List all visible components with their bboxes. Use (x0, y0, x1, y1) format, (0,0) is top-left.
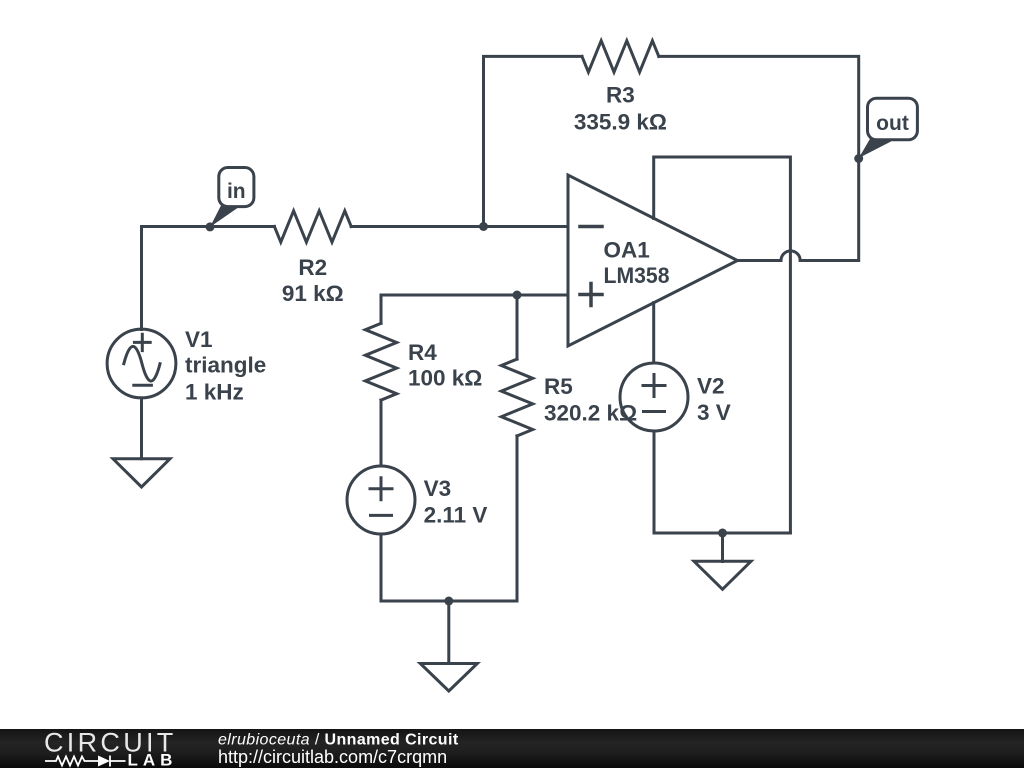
wire V1 top to node in (140, 227, 143, 330)
CircuitLab logo diode triangle (98, 756, 110, 767)
resistor R4 (365, 323, 396, 400)
svg-text:R3: R3 (606, 83, 635, 108)
V1 plus sign (134, 334, 150, 350)
svg-text:out: out (876, 112, 909, 135)
wire feedback vertical and top (484, 56, 583, 226)
svg-text:triangle: triangle (185, 353, 266, 378)
node in flag box (219, 168, 254, 207)
wire bottom middle rail (381, 600, 517, 603)
op-amp V+ pin wire to right rail (654, 157, 791, 533)
svg-text:LM358: LM358 (604, 263, 670, 288)
svg-text:V3: V3 (424, 476, 452, 501)
svg-text:3 V: 3 V (697, 400, 731, 425)
resistor R5 (501, 359, 532, 436)
op-amp plus input marker (580, 284, 602, 306)
junction dot R5 top (513, 291, 522, 300)
wire crossing bump on output wire (781, 251, 800, 261)
svg-text:R2: R2 (298, 255, 327, 280)
node out flag box (868, 98, 918, 140)
junction dot node out (854, 154, 863, 163)
svg-text:R4: R4 (408, 340, 437, 365)
ground stem middle (447, 601, 450, 664)
junction dot feedback (479, 222, 488, 231)
op-amp minus input marker (580, 225, 602, 229)
svg-text:OA1: OA1 (604, 237, 650, 262)
V3 minus sign (371, 514, 392, 517)
V1 minus sign (134, 384, 152, 387)
ground stem right (721, 533, 724, 562)
op-amp V- pin wire to V2 (652, 303, 655, 363)
junction dot bottom middle (444, 597, 453, 606)
wire R4 to V3 (380, 400, 383, 466)
node in flag tail (210, 206, 238, 228)
wire V3 bottom (380, 534, 383, 601)
wire bump to op-amp output (738, 259, 782, 262)
junction dot node in (206, 222, 215, 231)
resistor R2 (274, 211, 351, 242)
V1 sine symbol (124, 346, 160, 381)
wire node in to R2 (142, 225, 275, 228)
V2 minus sign (644, 410, 665, 413)
ground left triangle (113, 459, 170, 487)
resistor R3 (582, 41, 659, 72)
ground right triangle (694, 561, 751, 589)
svg-text:V1: V1 (185, 327, 213, 352)
svg-text:elrubioceuta / Unnamed Circuit: elrubioceuta / Unnamed Circuit (218, 732, 459, 749)
svg-text:320.2 kΩ: 320.2 kΩ (544, 400, 637, 425)
op-amp OA1 triangle body (568, 175, 738, 346)
svg-text:V2: V2 (697, 374, 725, 399)
ground middle triangle (420, 664, 477, 692)
wire R4 corner to op-amp noninverting input (381, 295, 568, 323)
voltage source V2 circle (620, 363, 688, 431)
svg-text:LAB: LAB (128, 751, 178, 768)
junction dot bottom right (718, 529, 727, 538)
V3 plus sign (370, 478, 392, 500)
wire V2 bottom (653, 431, 656, 533)
voltage source V1 circle (107, 329, 176, 398)
wire V1 bottom (140, 398, 143, 459)
svg-text:2.11 V: 2.11 V (424, 502, 488, 527)
wire R3 to out node and down to output (659, 56, 859, 260)
svg-text:91 kΩ: 91 kΩ (282, 281, 344, 306)
svg-text:335.9 kΩ: 335.9 kΩ (574, 110, 667, 135)
wire bottom right rail (654, 532, 790, 535)
svg-text:100 kΩ: 100 kΩ (408, 365, 482, 390)
voltage source V3 circle (347, 466, 415, 534)
wire R5 bottom (516, 436, 519, 601)
svg-text:in: in (227, 180, 246, 203)
node out flag tail (859, 139, 892, 158)
CircuitLab logo resistor-diode squiggle (45, 756, 126, 767)
svg-text:1 kHz: 1 kHz (185, 380, 244, 405)
V2 plus sign (643, 375, 665, 397)
svg-text:http://circuitlab.com/c7crqmn: http://circuitlab.com/c7crqmn (218, 747, 447, 767)
wire R2 to op-amp inverting input (351, 225, 568, 228)
svg-text:R5: R5 (544, 374, 573, 399)
wire R5 top (516, 295, 519, 359)
footer bar (0, 729, 1024, 768)
